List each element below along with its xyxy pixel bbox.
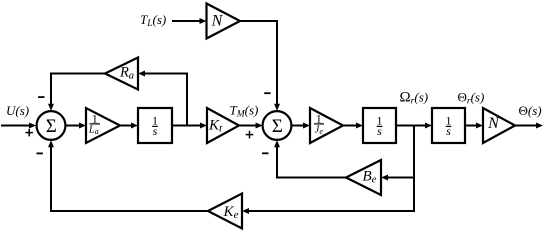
wire output Theta(s) (515, 123, 543, 129)
block integrator 1/s (armature) (138, 108, 172, 143)
wire Ra output to S1 top (48, 73, 105, 111)
wire input U(s) to summer S1 (1, 123, 36, 129)
svg-text:1: 1 (316, 111, 322, 125)
sign minus at S1 top input (38, 96, 44, 98)
sign plus at S1 left input (25, 129, 33, 137)
svg-text:Θr(s): Θr(s) (458, 90, 485, 107)
sign plus at S2 left input (246, 131, 254, 139)
wire branch node up to gain Ra (138, 71, 188, 127)
svg-text:s: s (446, 124, 451, 138)
svg-text:U(s): U(s) (6, 103, 29, 118)
svg-text:s: s (377, 124, 382, 138)
wire S1 to gain 1/La (65, 123, 86, 129)
svg-text:Σ: Σ (46, 116, 57, 137)
wire 1/Je to integrator B3 (343, 123, 363, 129)
gain block Be (viscous friction feedback) (346, 160, 381, 195)
svg-text:La: La (88, 125, 99, 136)
wire B3 to integrator B4 with branch node (396, 123, 432, 129)
gain block Ke (back-emf feedback) (208, 194, 242, 229)
svg-text:s: s (153, 124, 158, 138)
gain block 1/La (86, 108, 120, 143)
wire feedback branch vertical from speed node (413, 125, 415, 213)
sign minus at S2 top input (264, 92, 270, 94)
svg-text:N: N (211, 13, 224, 30)
svg-text:Ωr(s): Ωr(s) (400, 90, 429, 107)
wire gain 1/La to integrator B1 (120, 123, 138, 129)
summing junction S2 (263, 111, 292, 140)
svg-text:N: N (487, 115, 500, 132)
wire S2 to gain 1/Je (291, 123, 310, 129)
svg-text:TM(s): TM(s) (230, 103, 259, 120)
gain block N (top, load torque) (207, 4, 241, 39)
wire B1 to gain Kt with branch node (172, 123, 207, 129)
gain block Kt (207, 108, 239, 143)
wire Ke output to S1 bottom (48, 140, 208, 212)
wire N top output down to S2 top (240, 20, 280, 111)
svg-text:1: 1 (92, 111, 98, 125)
gain block 1/Je (310, 108, 343, 143)
svg-text:Je: Je (315, 125, 324, 136)
wire B4 to gain N output (465, 123, 483, 129)
block integrator 1/s (speed) (363, 108, 396, 143)
wire TL(s) to gain N top (172, 18, 207, 24)
summing junction S1 (37, 111, 66, 140)
svg-text:TL(s): TL(s) (140, 12, 166, 29)
svg-text:Θ(s): Θ(s) (519, 103, 542, 118)
wire Kt to summer S2 (239, 123, 263, 129)
wire Be output to S2 bottom (274, 140, 346, 178)
svg-text:Σ: Σ (272, 116, 283, 137)
wire speed node to gain Be (381, 175, 415, 181)
wire bottom feedback to gain Ke (242, 208, 414, 214)
sign minus at S2 bottom input (262, 152, 268, 154)
block integrator 1/s (position) (432, 108, 465, 143)
gain block Ra (feedback) (105, 58, 138, 90)
sign minus at S1 bottom input (37, 152, 43, 154)
gain block N (output gear) (483, 108, 515, 143)
